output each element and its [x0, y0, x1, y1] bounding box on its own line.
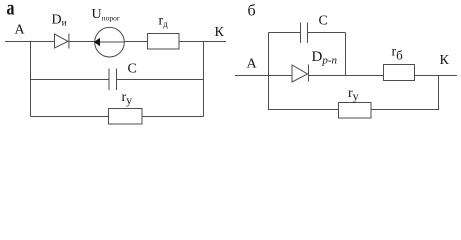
svg-text:К: К — [440, 53, 450, 68]
svg-text:rу: rу — [348, 86, 359, 103]
svg-text:б: б — [248, 3, 256, 20]
svg-text:rб: rб — [392, 45, 404, 63]
svg-text:Dи: Dи — [52, 13, 67, 29]
svg-text:Dр-n: Dр-n — [312, 49, 338, 67]
svg-text:а: а — [7, 0, 15, 20]
svg-text:А: А — [247, 57, 258, 72]
svg-text:А: А — [15, 23, 26, 38]
svg-text:C: C — [128, 62, 137, 77]
svg-text:rд: rд — [159, 14, 169, 30]
svg-text:C: C — [319, 14, 328, 29]
svg-text:К: К — [215, 25, 225, 40]
svg-text:Uпорог: Uпорог — [92, 7, 120, 23]
svg-text:rу: rу — [122, 90, 133, 107]
